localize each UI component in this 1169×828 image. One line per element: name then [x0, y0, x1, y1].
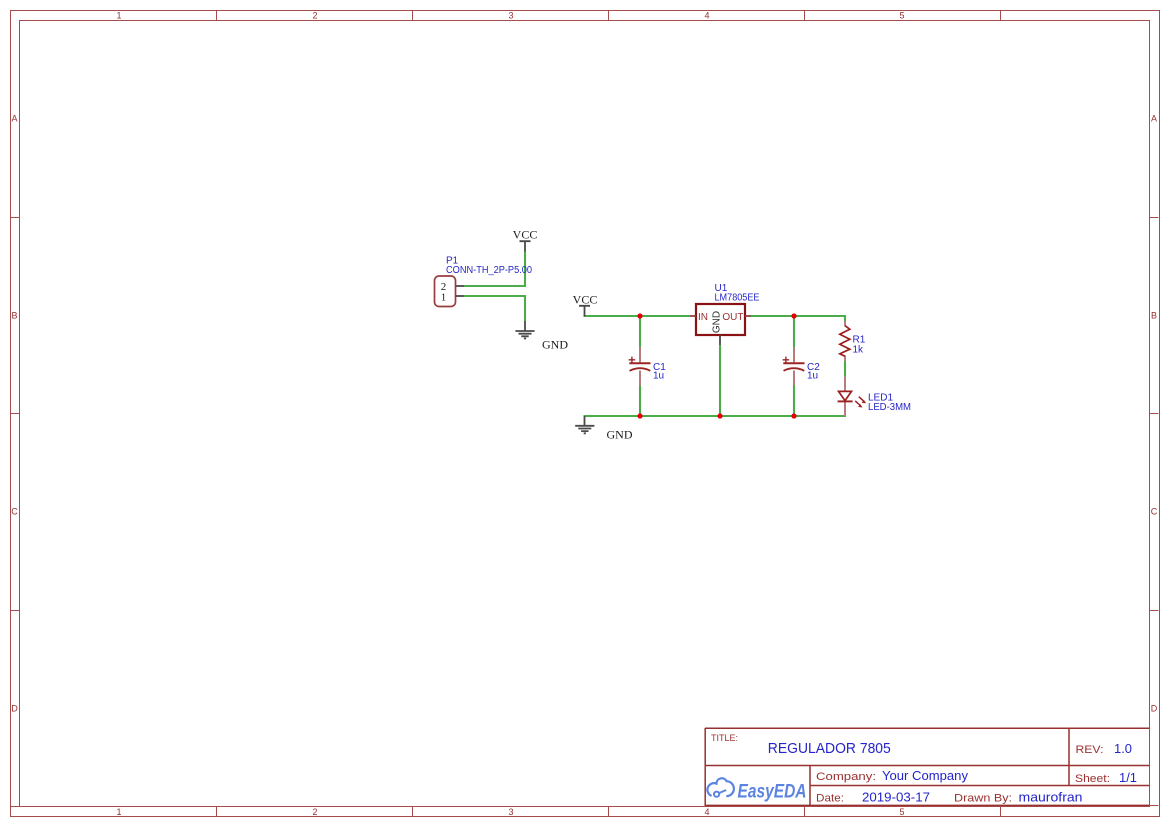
svg-text:GND: GND — [607, 427, 633, 441]
svg-text:A: A — [11, 114, 17, 124]
svg-text:B: B — [11, 311, 17, 321]
svg-text:maurofran: maurofran — [1019, 791, 1083, 805]
svg-text:A: A — [1151, 114, 1157, 124]
svg-text:Your Company: Your Company — [882, 769, 969, 783]
svg-text:GND: GND — [542, 338, 568, 352]
svg-text:IN: IN — [698, 312, 708, 323]
svg-text:CONN-TH_2P-P5.00: CONN-TH_2P-P5.00 — [446, 265, 532, 276]
svg-text:1k: 1k — [853, 344, 865, 355]
svg-text:D: D — [11, 704, 18, 714]
svg-text:Sheet:: Sheet: — [1075, 773, 1110, 785]
svg-text:GND: GND — [712, 311, 723, 333]
svg-text:4: 4 — [704, 807, 709, 817]
svg-text:3: 3 — [508, 807, 513, 817]
svg-text:LED-3MM: LED-3MM — [868, 402, 911, 413]
svg-text:C: C — [1151, 507, 1158, 517]
svg-text:TITLE:: TITLE: — [711, 733, 738, 744]
svg-text:1u: 1u — [653, 371, 664, 382]
svg-text:3: 3 — [508, 11, 513, 21]
svg-text:REV:: REV: — [1076, 744, 1104, 756]
svg-text:2: 2 — [312, 807, 317, 817]
svg-text:2: 2 — [312, 11, 317, 21]
svg-text:D: D — [1151, 704, 1158, 714]
svg-text:1: 1 — [116, 807, 121, 817]
svg-text:1: 1 — [441, 292, 447, 304]
svg-text:Company:: Company: — [816, 771, 876, 783]
svg-text:LM7805EE: LM7805EE — [715, 293, 760, 304]
svg-text:EasyEDA: EasyEDA — [738, 782, 807, 803]
svg-text:VCC: VCC — [573, 292, 598, 306]
svg-text:B: B — [1151, 311, 1157, 321]
svg-text:REGULADOR 7805: REGULADOR 7805 — [768, 740, 891, 757]
svg-text:1/1: 1/1 — [1119, 771, 1137, 785]
svg-text:Date:: Date: — [816, 793, 844, 805]
svg-text:Drawn By:: Drawn By: — [954, 793, 1012, 805]
svg-text:5: 5 — [899, 807, 904, 817]
svg-text:C: C — [11, 507, 18, 517]
svg-text:5: 5 — [899, 11, 904, 21]
svg-text:2019-03-17: 2019-03-17 — [862, 791, 930, 805]
svg-text:VCC: VCC — [513, 228, 538, 242]
svg-text:OUT: OUT — [722, 312, 743, 323]
svg-text:1: 1 — [116, 11, 121, 21]
svg-text:4: 4 — [704, 11, 709, 21]
svg-text:1u: 1u — [807, 371, 818, 382]
svg-text:1.0: 1.0 — [1114, 741, 1132, 756]
